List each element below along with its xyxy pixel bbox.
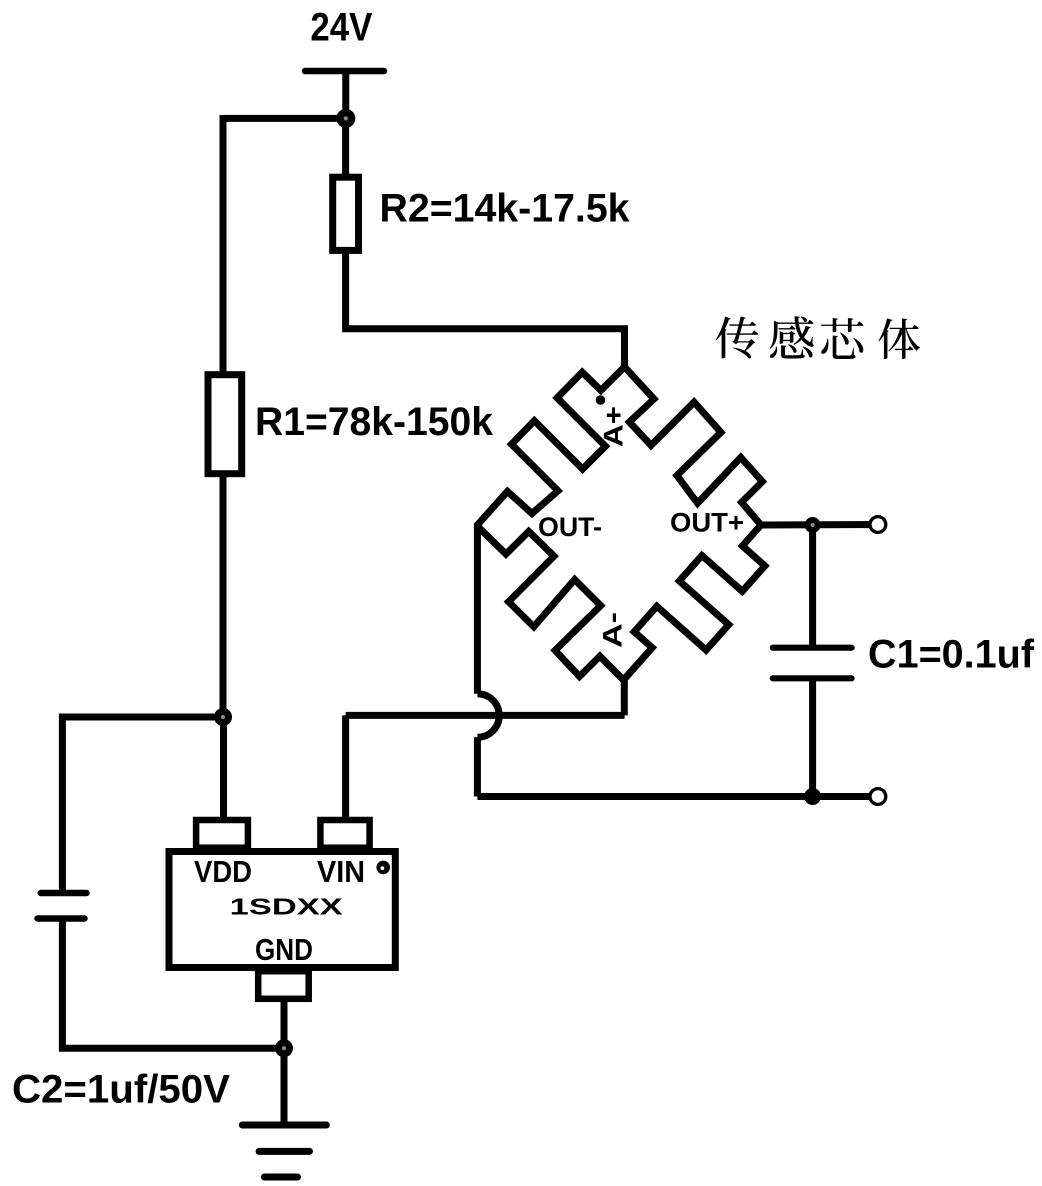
svg-text:R1=78k-150k: R1=78k-150k [255, 400, 494, 444]
svg-text:A-: A- [598, 612, 628, 648]
svg-text:C2=1uf/50V: C2=1uf/50V [12, 1068, 230, 1112]
svg-text:VIN: VIN [317, 854, 365, 889]
svg-text:OUT-: OUT- [538, 512, 602, 542]
svg-text:C1=0.1uf: C1=0.1uf [868, 633, 1035, 677]
svg-text:OUT+: OUT+ [670, 508, 744, 538]
svg-text:1SDXX: 1SDXX [230, 894, 344, 920]
svg-text:24V: 24V [310, 6, 372, 50]
svg-text:GND: GND [255, 932, 313, 967]
svg-text:VDD: VDD [194, 854, 252, 889]
svg-text:R2=14k-17.5k: R2=14k-17.5k [380, 187, 631, 231]
svg-text:A+: A+ [599, 406, 629, 447]
